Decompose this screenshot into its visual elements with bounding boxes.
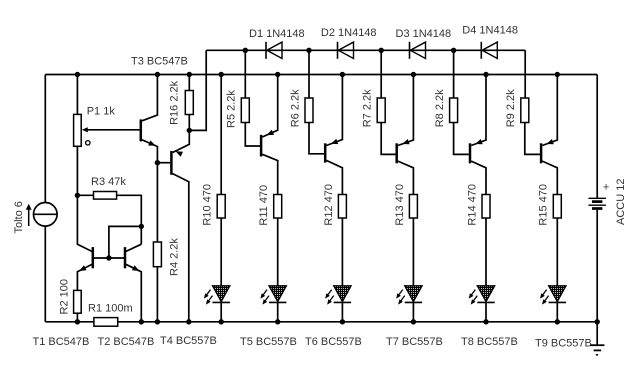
ground symbol xyxy=(590,322,604,355)
transistor T3 emitter xyxy=(142,140,157,163)
wire R10 column upper xyxy=(220,75,222,195)
node LED2 on bottom rail xyxy=(275,319,280,324)
wire R10 to LED1 xyxy=(220,218,222,286)
resistor R8 xyxy=(450,98,458,123)
label R9 2.2k xyxy=(505,89,517,127)
resistor R4 xyxy=(153,242,161,267)
svg-text:P1 1k: P1 1k xyxy=(87,106,116,118)
svg-text:T3 BC547B: T3 BC547B xyxy=(131,55,188,67)
resistor R2 xyxy=(74,290,82,313)
node T9 emitter on rail xyxy=(555,72,560,77)
svg-text:T1 BC547B: T1 BC547B xyxy=(33,336,90,348)
wire battery bottom xyxy=(596,210,598,322)
resistor R13 xyxy=(409,195,417,219)
svg-text:R13 470: R13 470 xyxy=(394,184,406,226)
wire LED4 to bottom rail xyxy=(412,302,414,321)
resistor R9 xyxy=(521,98,529,123)
LED 1 xyxy=(204,286,230,305)
svg-text:R16 2.2k: R16 2.2k xyxy=(168,80,180,125)
svg-text:R11 470: R11 470 xyxy=(258,185,270,226)
label T2 BC547B xyxy=(98,336,155,348)
wire diode chain rail xyxy=(206,49,525,51)
wire base tie T1-T2 xyxy=(94,257,124,259)
label R8 2.2k xyxy=(434,89,446,127)
node diode rail tap 4 xyxy=(451,48,456,53)
wire R6 to T6 base xyxy=(309,123,324,154)
wire R16 bottom xyxy=(188,115,190,131)
wire left supply rail (upper) xyxy=(44,75,46,203)
node R3 left xyxy=(75,193,80,198)
LED 5 xyxy=(469,286,495,305)
node T2 base tie xyxy=(106,255,111,260)
node R16 bottom junction xyxy=(187,128,192,133)
transistor T5 collector xyxy=(262,154,277,194)
node LED4 on bottom rail xyxy=(411,319,416,324)
wire T4 base xyxy=(157,162,170,164)
label R6 2.2k xyxy=(289,89,301,127)
wire R7 to T7 base xyxy=(381,123,395,155)
label T3 BC547B xyxy=(131,55,188,67)
label T7 BC557B xyxy=(386,336,443,348)
label R14 470 xyxy=(466,184,478,226)
label T4 BC557B xyxy=(160,335,217,347)
wire R2 bottom xyxy=(76,313,78,322)
transistor T4 emitter xyxy=(173,130,190,156)
svg-text:R4 2.2k: R4 2.2k xyxy=(169,238,181,276)
node T7 emitter on rail xyxy=(411,72,416,77)
transistor T8 emitter xyxy=(471,75,486,146)
node P1 top on rail xyxy=(75,72,80,77)
resistor R6 xyxy=(305,98,313,123)
svg-text:R5 2.2k: R5 2.2k xyxy=(226,90,238,128)
current source arrow xyxy=(26,204,32,226)
wire P1 top xyxy=(76,75,78,115)
node T2 emitter on bottom rail xyxy=(139,319,144,324)
LED 6 xyxy=(540,286,566,305)
svg-text:R3 47k: R3 47k xyxy=(91,176,126,188)
wire tap down to R6 xyxy=(308,50,310,98)
svg-text:ACCU 12: ACCU 12 xyxy=(615,179,627,225)
transistor T7 bar xyxy=(395,143,398,163)
node R4 bottom on rail xyxy=(155,319,160,324)
svg-text:R6 2.2k: R6 2.2k xyxy=(289,89,301,127)
label R5 2.2k xyxy=(226,90,238,128)
label D2 1N4148 xyxy=(321,27,377,39)
label R2 100 xyxy=(59,279,71,314)
transistor T6 emitter xyxy=(326,75,342,146)
wire tap down to R8 xyxy=(453,50,455,98)
label Tolto 6 xyxy=(13,201,25,233)
wire battery top xyxy=(596,75,598,198)
node diode rail tap 1 xyxy=(243,48,248,53)
wire R11 to LED2 xyxy=(277,218,279,286)
transistor T4 collector xyxy=(173,174,189,322)
wire R14 to LED5 xyxy=(485,218,487,286)
svg-text:T5 BC557B: T5 BC557B xyxy=(240,336,297,348)
transistor T2 emitter xyxy=(126,264,142,322)
wire R3 right to T2 collector column xyxy=(117,195,142,244)
resistor R15 xyxy=(553,195,561,219)
wire R4 top xyxy=(156,163,158,242)
battery ACCU 12 plates xyxy=(588,198,606,208)
wire LED2 to bottom rail xyxy=(277,302,279,321)
LED 3 xyxy=(325,286,351,305)
svg-text:T9 BC557B: T9 BC557B xyxy=(535,337,592,349)
node diode rail tap 2 xyxy=(306,48,311,53)
resistor R12 xyxy=(338,195,346,219)
resistor R3 xyxy=(94,192,117,200)
label T6 BC557B xyxy=(305,336,362,348)
label T9 BC557B xyxy=(535,337,592,349)
resistor R1 (in bottom rail) xyxy=(94,318,118,327)
svg-text:R15 470: R15 470 xyxy=(538,184,550,226)
svg-text:D1 1N4148: D1 1N4148 xyxy=(249,28,305,40)
transistor T4 bar xyxy=(170,151,173,175)
node T4 collector on bottom rail xyxy=(186,319,191,324)
transistor T1 bar xyxy=(92,247,95,268)
label P1 1k xyxy=(87,106,116,118)
wire left supply rail (lower) xyxy=(44,226,46,322)
svg-text:R7 2.2k: R7 2.2k xyxy=(362,89,374,127)
svg-text:R10 470: R10 470 xyxy=(202,184,214,226)
label R7 2.2k xyxy=(362,89,374,127)
label ACCU 12 xyxy=(615,179,627,225)
label T5 BC557B xyxy=(240,336,297,348)
wire link node to diode rail xyxy=(189,50,206,130)
wire R3 left xyxy=(77,194,93,196)
svg-text:T4 BC557B: T4 BC557B xyxy=(160,335,217,347)
transistor T2 collector xyxy=(126,244,142,251)
wire P1 bottom to R3 node xyxy=(76,146,78,195)
resistor R14 xyxy=(482,195,490,219)
svg-text:T7 BC557B: T7 BC557B xyxy=(386,336,443,348)
svg-text:R2 100: R2 100 xyxy=(59,279,71,314)
potentiometer P1 open-end circle xyxy=(86,141,90,145)
wire R8 to T8 base xyxy=(454,123,469,155)
resistor R5 xyxy=(241,98,249,123)
label D1 1N4148 xyxy=(249,28,305,40)
wire LED6 to bottom rail xyxy=(556,302,558,321)
svg-text:D4 1N4148: D4 1N4148 xyxy=(462,24,518,36)
label D3 1N4148 xyxy=(396,28,452,40)
node T2 collector tie xyxy=(139,224,144,229)
potentiometer P1 wiper arrow xyxy=(82,127,140,132)
wire base tie up to collector node xyxy=(109,226,141,258)
node T6 emitter on rail xyxy=(340,72,345,77)
wire R13 to LED4 xyxy=(412,218,414,286)
LED 2 xyxy=(260,286,286,305)
transistor T1 emitter xyxy=(77,264,92,290)
label T8 BC557B xyxy=(461,336,518,348)
potentiometer P1 body xyxy=(74,114,82,146)
svg-text:D2 1N4148: D2 1N4148 xyxy=(321,27,377,39)
transistor T3 collector xyxy=(142,75,157,121)
resistor R11 xyxy=(274,195,282,219)
svg-text:+: + xyxy=(603,181,609,193)
diode D1 xyxy=(266,42,282,59)
wire main top rail xyxy=(45,74,597,76)
svg-text:R14 470: R14 470 xyxy=(466,184,478,226)
svg-text:T2 BC547B: T2 BC547B xyxy=(98,336,155,348)
svg-text:R12 470: R12 470 xyxy=(323,184,335,226)
label T1 BC547B xyxy=(33,336,90,348)
node LED6 on bottom rail xyxy=(555,319,560,324)
wire R15 to LED6 xyxy=(556,218,558,286)
label R4 2.2k xyxy=(169,238,181,276)
resistor R7 xyxy=(377,98,385,123)
transistor T8 collector xyxy=(471,161,486,194)
wire R5 to T5 base xyxy=(245,123,260,147)
node R16 top on rail xyxy=(187,72,192,77)
wire diode rail end down to R9 xyxy=(524,50,526,98)
diode D4 xyxy=(481,42,497,59)
label battery plus xyxy=(603,181,609,193)
wire bottom rail xyxy=(45,321,597,323)
node R10 top on rail xyxy=(219,72,224,77)
label R16 2.2k xyxy=(168,80,180,125)
label R13 470 xyxy=(394,184,406,226)
LED 4 xyxy=(396,286,422,305)
wire LED3 to bottom rail xyxy=(341,302,343,321)
wire tap down to R5 xyxy=(244,50,246,98)
svg-text:Tolto 6: Tolto 6 xyxy=(13,201,25,233)
resistor R16 xyxy=(185,91,193,115)
wire R4 bottom xyxy=(156,267,158,322)
node diode rail tap 3 xyxy=(379,48,384,53)
svg-text:T6 BC557B: T6 BC557B xyxy=(305,336,362,348)
node T3 emitter junction xyxy=(155,160,160,165)
transistor T9 emitter xyxy=(542,75,557,146)
diode D3 xyxy=(410,42,426,59)
transistor T7 emitter xyxy=(398,75,414,146)
svg-text:T8 BC557B: T8 BC557B xyxy=(461,336,518,348)
transistor T9 collector xyxy=(542,161,557,194)
wire tap down to R7 xyxy=(380,50,382,98)
diode D2 xyxy=(338,42,354,59)
wire LED1 to bottom rail xyxy=(220,302,222,321)
svg-text:R8 2.2k: R8 2.2k xyxy=(434,89,446,127)
label R15 470 xyxy=(538,184,550,226)
svg-text:R9 2.2k: R9 2.2k xyxy=(505,89,517,127)
wire T1 collector xyxy=(77,195,92,251)
wire R9 to T9 base xyxy=(525,123,540,155)
label R3 47k xyxy=(91,176,126,188)
label D4 1N4148 xyxy=(462,24,518,36)
transistor T8 bar xyxy=(469,143,472,163)
node LED5 on bottom rail xyxy=(483,319,488,324)
resistor R10 xyxy=(217,195,225,219)
wire LED5 to bottom rail xyxy=(485,302,487,321)
transistor T9 bar xyxy=(540,143,543,163)
transistor T2 bar xyxy=(124,247,127,268)
transistor T3 bar xyxy=(140,119,143,141)
transistor T5 bar xyxy=(260,135,263,157)
node LED3 on bottom rail xyxy=(340,319,345,324)
svg-text:D3 1N4148: D3 1N4148 xyxy=(396,28,452,40)
label R1 100m xyxy=(88,303,133,315)
transistor T6 bar xyxy=(324,143,327,162)
wire R12 to LED3 xyxy=(341,218,343,286)
wire R16 top xyxy=(188,75,190,91)
transistor T5 emitter xyxy=(262,75,277,138)
svg-text:R1 100m: R1 100m xyxy=(88,303,133,315)
node battery on bottom rail xyxy=(595,319,600,324)
node T8 emitter on rail xyxy=(483,72,488,77)
node T5 emitter on rail xyxy=(275,72,280,77)
node T3 collector on rail xyxy=(155,72,160,77)
label R10 470 xyxy=(202,184,214,226)
transistor T7 collector xyxy=(398,161,414,194)
transistor T6 collector xyxy=(326,160,342,194)
current source symbol xyxy=(34,203,58,227)
node R2 bottom on rail xyxy=(75,319,80,324)
node LED1 on bottom rail xyxy=(219,319,224,324)
label R11 470 xyxy=(258,185,270,226)
label R12 470 xyxy=(323,184,335,226)
